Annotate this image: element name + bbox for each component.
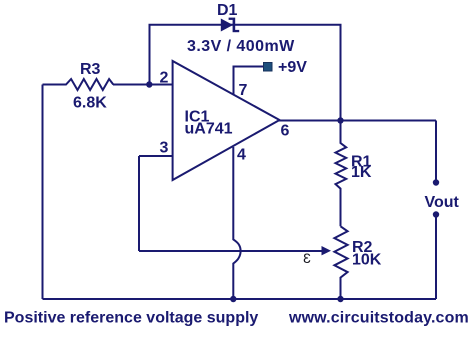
- wire left vertical: [42, 85, 44, 300]
- wire top horizontal from riser to right riser: [150, 25, 341, 121]
- svg-text:3: 3: [303, 250, 311, 266]
- wiper arrowhead of R2: [322, 246, 332, 255]
- wire bottom horizontal: [43, 298, 437, 300]
- svg-text:www.circuitstoday.com: www.circuitstoday.com: [288, 310, 469, 327]
- node junction output/R1: [337, 117, 343, 123]
- node Vout top terminal: [433, 179, 439, 185]
- node junction pin2/top riser: [146, 81, 152, 87]
- label epsilon on wiper: [303, 250, 311, 266]
- wire pin 4 vertical with hop over wiper: [233, 147, 240, 299]
- diode D1 zener: [221, 18, 239, 33]
- svg-text:Positive reference voltage sup: Positive reference voltage supply: [4, 310, 258, 327]
- svg-text:3: 3: [160, 140, 169, 157]
- svg-text:Vout: Vout: [425, 194, 460, 211]
- potentiometer R2: [334, 226, 347, 299]
- svg-text:3.3V / 400mW: 3.3V / 400mW: [187, 38, 295, 55]
- svg-text:+9V: +9V: [278, 59, 307, 76]
- power +9V square terminal: [264, 63, 273, 72]
- svg-text:1K: 1K: [351, 164, 372, 181]
- svg-text:uA741: uA741: [185, 121, 233, 138]
- op-amp IC1 triangle: [173, 61, 280, 180]
- wire pin2 horizontal: [113, 84, 173, 86]
- svg-text:4: 4: [237, 147, 246, 164]
- svg-text:10K: 10K: [352, 252, 382, 269]
- resistor R1: [336, 121, 347, 227]
- node junction R2/bottom: [337, 296, 343, 302]
- svg-text:D1: D1: [217, 2, 238, 19]
- node junction pin4/bottom: [230, 296, 236, 302]
- svg-text:2: 2: [160, 70, 169, 87]
- wire output pin 6: [279, 120, 436, 122]
- wire wiper horizontal to R2 arrow: [139, 250, 323, 252]
- wire pin 7 stub to +9V: [234, 67, 265, 95]
- wire pin3 vertical down: [138, 156, 140, 251]
- resistor R3: [43, 79, 114, 90]
- node Vout bottom terminal: [433, 211, 439, 217]
- wire Vout lower vertical: [435, 215, 437, 300]
- wire pin 3 stub: [139, 155, 173, 157]
- wire Vout upper vertical: [435, 121, 437, 183]
- svg-text:6.8K: 6.8K: [73, 95, 107, 112]
- svg-text:R3: R3: [80, 61, 101, 78]
- svg-text:7: 7: [239, 82, 248, 99]
- svg-text:6: 6: [281, 123, 290, 140]
